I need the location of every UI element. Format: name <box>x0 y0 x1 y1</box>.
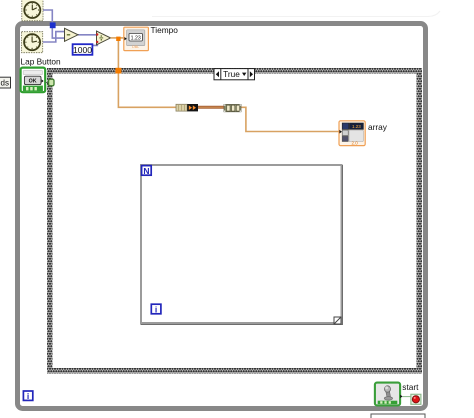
svg-text:DBL: DBL <box>132 45 139 49</box>
svg-text:1.23: 1.23 <box>131 35 141 41</box>
svg-text:N: N <box>143 166 149 176</box>
svg-text:start: start <box>402 382 419 392</box>
svg-text:OK: OK <box>29 79 37 85</box>
svg-text:True: True <box>223 69 240 79</box>
svg-text:1000: 1000 <box>73 45 92 55</box>
svg-text:2.0: 2.0 <box>352 140 359 145</box>
svg-text:i: i <box>27 391 29 401</box>
svg-text:i: i <box>155 305 157 315</box>
svg-text:ds: ds <box>1 78 9 87</box>
svg-text:array: array <box>368 122 388 132</box>
svg-text:Lap Button: Lap Button <box>21 57 62 67</box>
svg-text:Tiempo: Tiempo <box>151 25 179 35</box>
svg-text:1.23: 1.23 <box>352 124 361 129</box>
